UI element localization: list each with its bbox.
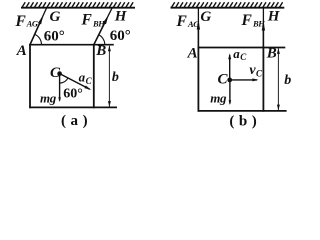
- dimension line b (a): [108, 46, 111, 107]
- svg-text:G: G: [200, 9, 211, 25]
- svg-text:BH: BH: [92, 19, 105, 29]
- svg-text:60°: 60°: [63, 87, 83, 102]
- force F_BH arrow (b): [262, 22, 265, 47]
- rope AG (b): [197, 8, 199, 47]
- svg-text:60°: 60°: [110, 28, 131, 44]
- svg-text:F: F: [176, 13, 188, 30]
- svg-text:b: b: [112, 70, 119, 85]
- rope AG (a): [30, 8, 47, 45]
- svg-text:C: C: [86, 76, 93, 86]
- weight mg arrow (b): [229, 80, 232, 105]
- force F_BH arrow (a): [94, 15, 109, 44]
- svg-text:B: B: [95, 43, 106, 59]
- ceiling (a): [21, 2, 135, 8]
- label a_C (b): [233, 46, 247, 62]
- force F_AG arrow (a): [30, 16, 43, 45]
- svg-text:H: H: [267, 9, 281, 25]
- svg-text:mg: mg: [40, 90, 57, 105]
- label F_BH (b): [241, 12, 266, 29]
- svg-text:C: C: [240, 52, 247, 62]
- square block (a): [29, 44, 117, 108]
- square block (b): [198, 46, 287, 111]
- svg-text:AG: AG: [26, 19, 39, 29]
- angle arc at B (a): [99, 35, 105, 45]
- svg-text:b: b: [284, 73, 291, 88]
- label a_C (a): [79, 69, 93, 86]
- svg-text:F: F: [81, 12, 93, 29]
- acceleration a_C arrow (a): [60, 74, 92, 90]
- svg-text:( a ): ( a ): [61, 113, 88, 129]
- rope BH (a): [94, 7, 113, 45]
- svg-text:BH: BH: [252, 19, 265, 29]
- svg-text:H: H: [114, 9, 128, 25]
- label F_AG (a): [15, 13, 39, 30]
- label v_C (b): [249, 63, 263, 78]
- svg-text:A: A: [16, 43, 27, 59]
- velocity v_C arrow (b): [230, 78, 259, 81]
- svg-text:mg: mg: [210, 91, 227, 106]
- ceiling (b): [171, 2, 285, 8]
- svg-text:AG: AG: [187, 19, 200, 29]
- svg-text:a: a: [79, 69, 86, 84]
- svg-text:F: F: [241, 12, 253, 29]
- force F_AG arrow (b): [197, 21, 200, 47]
- weight mg arrow (a): [58, 74, 61, 102]
- svg-text:60°: 60°: [44, 28, 65, 44]
- mass point C dot (a): [57, 71, 62, 76]
- label F_AG (b): [176, 13, 201, 30]
- mass point C dot (b): [227, 78, 232, 83]
- angle arc at A (a): [35, 34, 42, 45]
- svg-text:F: F: [15, 13, 27, 30]
- svg-text:a: a: [233, 46, 240, 61]
- svg-text:( b ): ( b ): [229, 114, 257, 130]
- svg-text:C: C: [218, 71, 229, 87]
- acceleration a_C arrow (b): [228, 53, 231, 80]
- label F_BH (a): [81, 12, 106, 29]
- svg-text:A: A: [187, 46, 198, 62]
- svg-text:G: G: [50, 9, 61, 25]
- svg-text:B: B: [266, 46, 277, 62]
- rope BH (b): [262, 8, 264, 47]
- angle arc at C (a): [60, 78, 69, 83]
- svg-text:C: C: [256, 68, 263, 78]
- dimension line b (b): [277, 48, 280, 110]
